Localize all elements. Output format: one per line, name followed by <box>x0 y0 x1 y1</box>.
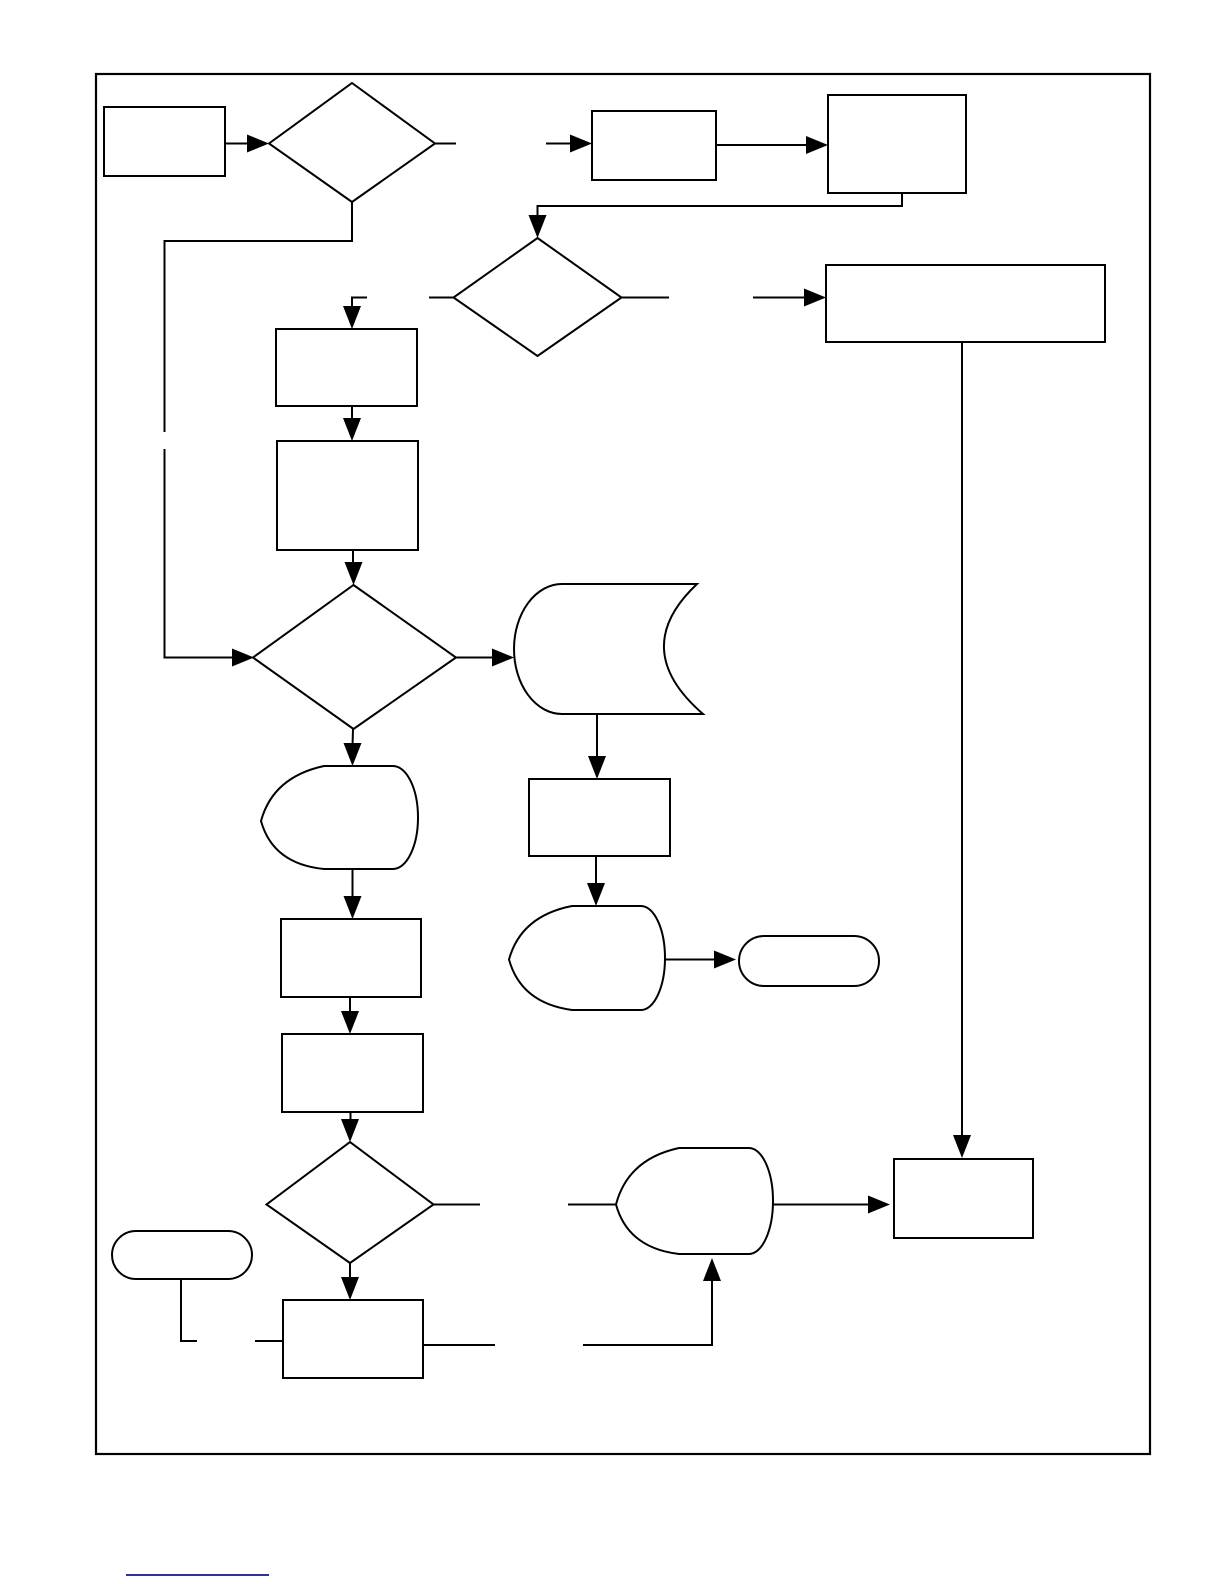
decision diamond D2 <box>454 238 622 356</box>
wire B7 to display P2 <box>595 856 597 885</box>
wire D3 bottom to display P1 <box>352 729 355 746</box>
wire P3 to box B11 <box>773 1204 869 1206</box>
wire B3 bottom to diamond D2 top <box>538 193 903 217</box>
wire stub B10 right <box>423 1344 495 1346</box>
process box B8 <box>281 919 421 997</box>
process box B6 (left column tall) <box>277 441 418 550</box>
wire P1 to box B8 <box>352 869 354 898</box>
wire up into P3 bottom (after label gap) <box>583 1280 712 1345</box>
wire D4 bottom to box B10 <box>349 1263 351 1279</box>
stored data shape S1 <box>514 584 703 714</box>
wire into wide box B4 (after label gap) <box>753 297 806 299</box>
wire loop left (lower segment) into D3 <box>165 449 235 658</box>
wire stub D4 right <box>434 1204 481 1206</box>
wire P2 to stadium T2 <box>665 959 715 961</box>
process box B2 (top middle) <box>592 111 716 180</box>
wire B5 to B6 <box>351 406 353 421</box>
display shape P1 (left column) <box>261 766 418 869</box>
wire into box B2 (after label gap) <box>546 143 572 145</box>
display shape P3 (bottom middle) <box>616 1148 773 1254</box>
process box B11 (bottom right) <box>894 1159 1033 1238</box>
process box B1 (top-left start) <box>104 107 225 176</box>
process box B3 (top right) <box>828 95 966 193</box>
wire stub D1 right <box>435 143 456 145</box>
wire B6 to diamond D3 <box>352 550 354 565</box>
decision diamond D4 <box>267 1142 434 1263</box>
wire into B10 left <box>255 1340 283 1342</box>
process box B7 (middle column) <box>529 779 670 856</box>
process box B4 (wide, right) <box>826 265 1105 342</box>
wire B9 to diamond D4 <box>350 1112 352 1121</box>
process box B9 <box>282 1034 423 1112</box>
wire S1 down to box B7 <box>596 714 598 758</box>
process box B5 (left column) <box>276 329 417 406</box>
decision diamond D1 <box>269 83 435 202</box>
display shape P2 (middle) <box>509 906 665 1010</box>
terminator stadium T1 (bottom left) <box>112 1231 252 1279</box>
wire stub D2 right <box>622 297 670 299</box>
wire B2 to B3 <box>716 144 807 146</box>
wire stub D2 left <box>429 297 454 299</box>
terminator stadium T2 <box>739 936 879 986</box>
decision diamond D3 <box>253 585 456 729</box>
page border frame <box>96 74 1150 1454</box>
wire into display P3 (after label gap) <box>568 1204 616 1206</box>
wire T1 down-right (segment with gap) <box>181 1279 197 1341</box>
wire B1 to D1 <box>225 143 249 145</box>
process box B10 (bottom left) <box>283 1300 423 1378</box>
wire D3 right to stored data S1 <box>456 657 493 659</box>
wire B8 to B9 <box>349 997 351 1013</box>
hyperlink underline (bottom footer) <box>126 1574 269 1576</box>
wire from D1 bottom, loop left (upper segment) <box>165 202 353 432</box>
wire hook into box B5 (after label gap) <box>352 298 367 309</box>
wire B4 down to box B11 <box>961 342 963 1137</box>
